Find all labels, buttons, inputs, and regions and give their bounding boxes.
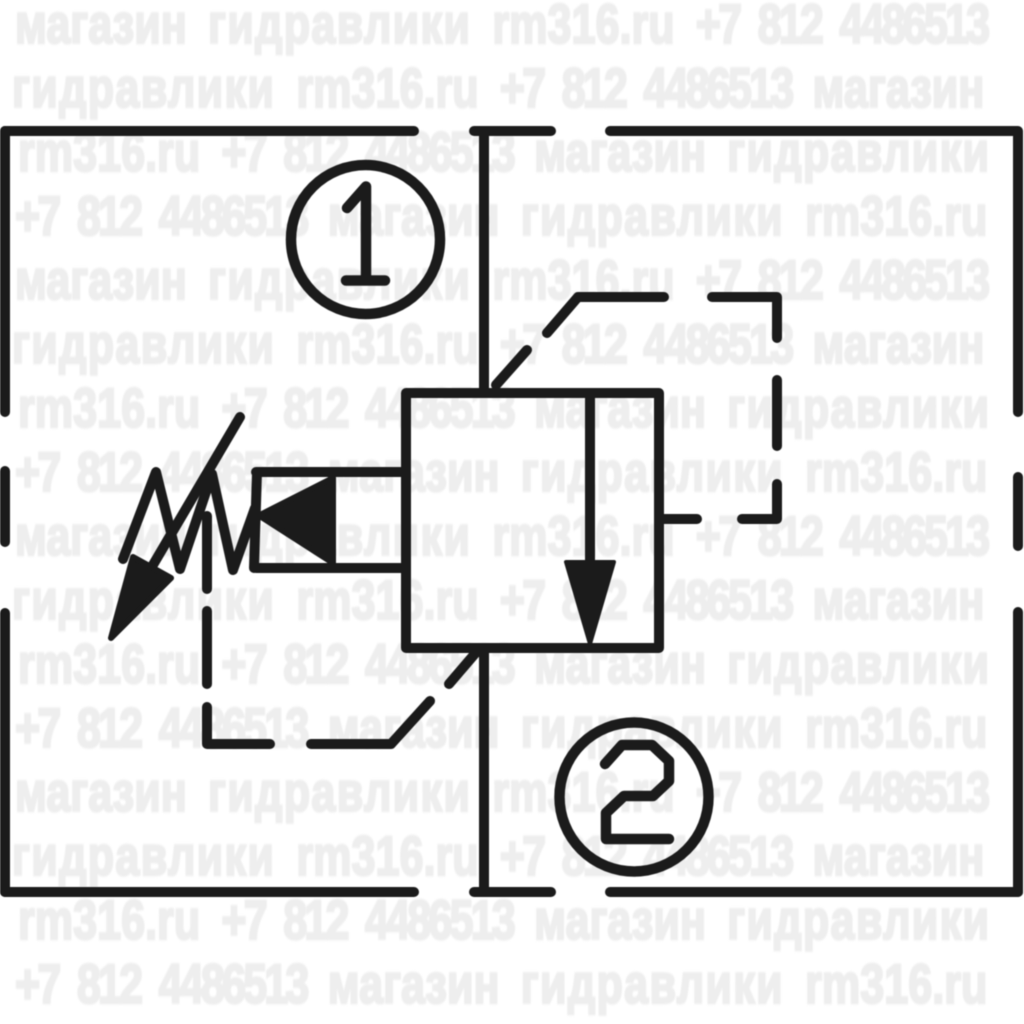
digit 1 bbox=[346, 187, 385, 281]
port label circle 1 bbox=[291, 165, 440, 314]
drain dashed line: dash D bbox=[311, 701, 430, 744]
port label circle 2 bbox=[560, 723, 709, 872]
pilot triangle bbox=[259, 478, 333, 563]
pilot stub right bbox=[659, 514, 697, 524]
pilot dashed line right: dash 1 bbox=[496, 350, 527, 385]
digit 2 bbox=[605, 745, 669, 839]
flow arrowhead bbox=[566, 562, 614, 644]
flow path line bbox=[585, 395, 595, 566]
drain dashed line: dash B bbox=[202, 611, 212, 684]
pilot dashed line right: dash 5 bbox=[742, 484, 777, 519]
enclosure border bottom bbox=[5, 887, 1018, 897]
spring bbox=[123, 472, 255, 570]
valve body square bbox=[406, 393, 659, 648]
drain dashed line: dash C bbox=[207, 707, 270, 744]
enclosure border top bbox=[5, 126, 1018, 136]
enclosure border right bbox=[1013, 132, 1023, 892]
pilot dashed line right: dash 3 bbox=[712, 297, 777, 338]
watermark rows bbox=[15, 0, 987, 52]
spring box bbox=[254, 472, 406, 568]
port 1 line bbox=[479, 131, 489, 393]
drain dashed line: dash A bbox=[202, 516, 212, 589]
adjustment arrowhead bbox=[111, 557, 171, 638]
pilot dashed line right: dash 2 bbox=[547, 297, 664, 333]
drain dashed line: dash E bbox=[449, 653, 476, 685]
pilot dashed line right: dash 4 bbox=[772, 380, 782, 446]
enclosure border left bbox=[0, 131, 10, 892]
adjustment arrow shaft bbox=[150, 417, 240, 570]
port 2 line bbox=[479, 648, 489, 892]
